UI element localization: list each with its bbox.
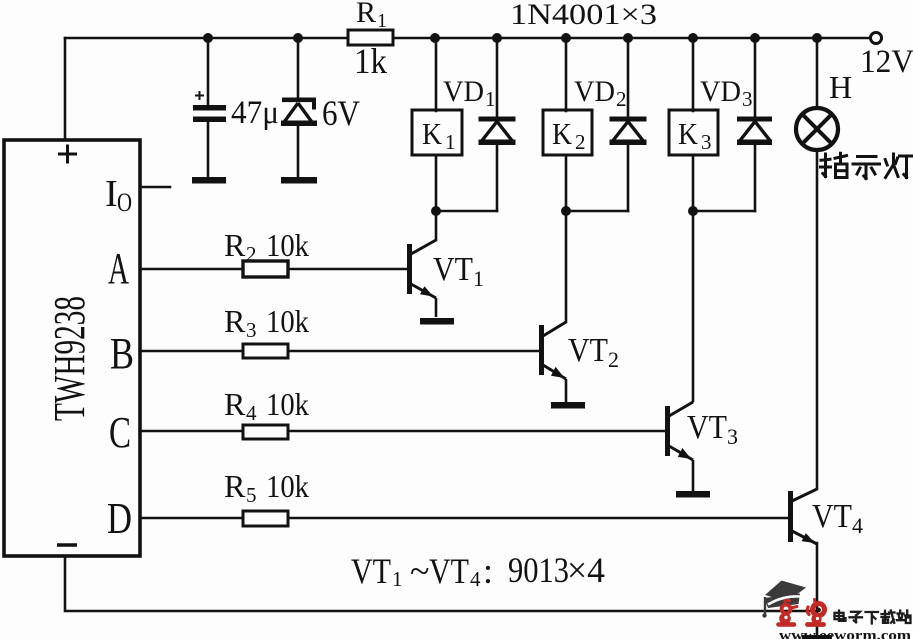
diode VD3 bbox=[737, 117, 772, 146]
svg-text:1: 1 bbox=[485, 87, 496, 111]
wire bottom rail from IC minus to VT4 emitter bbox=[65, 557, 816, 611]
zener diode 6V bbox=[281, 98, 317, 127]
logo black strip bottom bbox=[802, 635, 832, 639]
svg-text:R: R bbox=[356, 0, 376, 29]
logo graduation cap bbox=[765, 581, 806, 602]
svg-text:VT: VT bbox=[812, 498, 852, 535]
wire node link K2-VD2 bbox=[566, 210, 628, 213]
svg-text:R: R bbox=[224, 303, 246, 339]
wire pin D to VT4 base bbox=[141, 517, 788, 520]
svg-text:1: 1 bbox=[392, 567, 403, 591]
svg-text:4: 4 bbox=[852, 513, 863, 538]
svg-text:1N4001×3: 1N4001×3 bbox=[510, 0, 657, 31]
char 载 bbox=[882, 611, 895, 623]
svg-text:2: 2 bbox=[616, 87, 627, 111]
svg-text:12V: 12V bbox=[860, 44, 913, 80]
diode VD1 bbox=[479, 117, 516, 146]
wire VT4 emitter to bottom edge bbox=[816, 543, 819, 639]
wire K1 branch bbox=[435, 38, 438, 240]
wire pin C to VT3 base bbox=[141, 430, 665, 433]
svg-text:K: K bbox=[678, 116, 699, 151]
lamp H indicator bbox=[796, 108, 838, 150]
svg-text:5: 5 bbox=[246, 483, 257, 507]
wire capacitor branch bbox=[207, 38, 210, 178]
svg-text:B: B bbox=[110, 329, 134, 378]
svg-text:47μ: 47μ bbox=[231, 95, 279, 131]
wire node link K1-VD1 bbox=[436, 210, 497, 213]
transistor VT1 bbox=[407, 240, 454, 325]
svg-text:1: 1 bbox=[473, 266, 484, 291]
terminal 12V open circle bbox=[871, 33, 882, 44]
svg-text:R: R bbox=[224, 468, 246, 504]
transistor VT2 bbox=[539, 322, 585, 409]
watermark logo eeworm bbox=[762, 581, 911, 639]
svg-text:3: 3 bbox=[701, 130, 712, 154]
relay K3 bbox=[669, 110, 718, 155]
wire pin A to VT1 base bbox=[141, 268, 407, 271]
relay K2 bbox=[543, 110, 592, 155]
svg-text:3: 3 bbox=[727, 424, 738, 449]
wire node link K3-VD3 bbox=[693, 210, 755, 213]
svg-text:H: H bbox=[829, 69, 852, 105]
resistor R4 bbox=[243, 425, 288, 439]
svg-text:VT: VT bbox=[433, 251, 473, 288]
svg-text:I: I bbox=[105, 173, 118, 215]
char 电 bbox=[835, 611, 846, 621]
wire K3 branch bbox=[692, 38, 695, 401]
resistor R5 bbox=[243, 511, 288, 526]
IC U1 TWH9238 box bbox=[4, 140, 140, 556]
svg-text:4: 4 bbox=[246, 401, 257, 425]
svg-text:9013: 9013 bbox=[508, 550, 569, 590]
svg-text:10k: 10k bbox=[266, 386, 309, 422]
svg-text:1k: 1k bbox=[354, 41, 387, 81]
wire pin B to VT2 base bbox=[141, 350, 539, 353]
transistor VT4 bbox=[788, 489, 817, 544]
svg-text:3: 3 bbox=[246, 318, 257, 342]
char 站 bbox=[897, 611, 911, 624]
svg-text:D: D bbox=[107, 494, 132, 543]
logo text 电子下载站 bbox=[835, 611, 911, 624]
svg-text:1: 1 bbox=[377, 10, 387, 32]
capacitor C 47u plates bbox=[193, 105, 226, 111]
zener ground bar bbox=[281, 177, 317, 184]
svg-text:K: K bbox=[552, 116, 573, 151]
node dots at relay/diode junctions bbox=[431, 206, 441, 216]
svg-text:~: ~ bbox=[410, 551, 429, 591]
wire top rail +12V bbox=[65, 37, 874, 40]
svg-text:10k: 10k bbox=[266, 468, 309, 504]
char 下 bbox=[866, 612, 879, 624]
wire zener branch bbox=[297, 38, 300, 178]
svg-text:6V: 6V bbox=[322, 93, 360, 133]
char deng1 (lamp) bbox=[885, 154, 912, 178]
svg-text:A: A bbox=[108, 244, 129, 293]
svg-text:10k: 10k bbox=[266, 303, 309, 339]
logo red bug 1 bbox=[779, 600, 798, 624]
svg-text:TWH9238: TWH9238 bbox=[45, 296, 94, 421]
svg-text:www.eeworm.com: www.eeworm.com bbox=[779, 628, 912, 639]
logo red bug 2 bbox=[807, 600, 824, 625]
svg-text:VD: VD bbox=[443, 75, 484, 108]
svg-text:1: 1 bbox=[445, 130, 456, 154]
wire K2 branch bbox=[565, 38, 568, 322]
diode VD2 bbox=[610, 117, 647, 146]
svg-text:×4: ×4 bbox=[567, 550, 605, 590]
svg-text:VT: VT bbox=[568, 332, 608, 369]
svg-text:R: R bbox=[224, 386, 246, 422]
svg-text:VD: VD bbox=[574, 75, 615, 108]
node dots on +12V rail bbox=[203, 33, 822, 216]
capacitor ground bar bbox=[192, 177, 226, 184]
svg-text:3: 3 bbox=[742, 87, 753, 111]
relay K1 bbox=[412, 110, 462, 155]
svg-text:10k: 10k bbox=[266, 227, 309, 263]
wire VD1 branch bbox=[496, 38, 499, 211]
wire VD3 branch bbox=[754, 38, 757, 211]
wire left drop from rail to IC + pin bbox=[64, 38, 67, 140]
svg-text:R: R bbox=[224, 227, 246, 263]
svg-text:VD: VD bbox=[700, 75, 741, 108]
wire lamp branch / VT4 collector bbox=[816, 38, 819, 489]
svg-text:2: 2 bbox=[246, 242, 257, 266]
IC pin - symbol bbox=[57, 543, 77, 546]
svg-text:VT: VT bbox=[687, 409, 727, 446]
svg-text:2: 2 bbox=[608, 347, 619, 372]
svg-text:O: O bbox=[117, 188, 132, 217]
svg-text::: : bbox=[483, 551, 493, 591]
char shi4 (show) bbox=[853, 157, 880, 179]
svg-text:VT: VT bbox=[351, 551, 391, 591]
wire VD2 branch bbox=[627, 38, 630, 211]
resistor R3 bbox=[243, 344, 288, 358]
IC pin + symbol bbox=[58, 145, 77, 164]
svg-text:VT: VT bbox=[429, 551, 469, 591]
capacitor polarity + bbox=[195, 91, 204, 100]
wire pin Io stub bbox=[141, 186, 170, 189]
char 子 bbox=[850, 612, 863, 622]
svg-text:2: 2 bbox=[575, 130, 586, 154]
svg-text:4: 4 bbox=[470, 567, 481, 591]
svg-text:K: K bbox=[422, 116, 443, 151]
resistor R1 bbox=[348, 30, 393, 45]
char zhi3 (point) bbox=[821, 153, 848, 177]
resistor R2 bbox=[243, 261, 288, 277]
svg-text:C: C bbox=[109, 408, 131, 457]
transistor VT3 bbox=[665, 402, 710, 498]
label 指示灯 (indicator lamp) bbox=[821, 153, 913, 178]
